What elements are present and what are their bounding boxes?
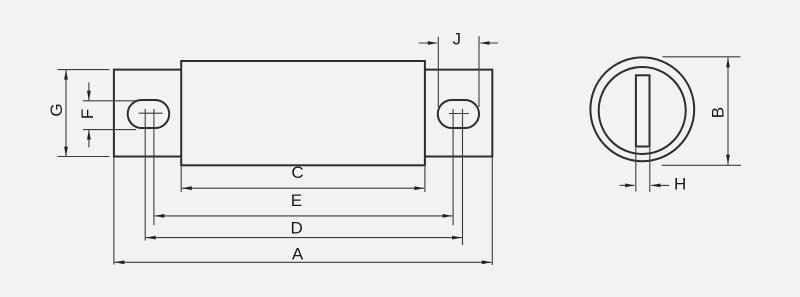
svg-text:J: J bbox=[453, 30, 462, 49]
extension lines A (tab edges extended) bbox=[114, 158, 492, 266]
svg-text:G: G bbox=[47, 103, 66, 116]
dimension line H bbox=[620, 184, 670, 188]
svg-text:D: D bbox=[291, 218, 303, 237]
dimension line B bbox=[726, 58, 730, 165]
dimension line G bbox=[64, 70, 68, 157]
svg-text:C: C bbox=[291, 163, 303, 182]
end view inner circle bbox=[599, 67, 686, 154]
left hole crosshair bbox=[139, 112, 163, 114]
svg-text:F: F bbox=[78, 109, 97, 119]
svg-text:A: A bbox=[292, 245, 304, 264]
extension lines D (outer hole-centre lines) bbox=[145, 109, 462, 245]
svg-text:B: B bbox=[709, 107, 728, 118]
dimension line C bbox=[182, 186, 424, 190]
dimension line E bbox=[155, 214, 453, 218]
right mounting tab bbox=[425, 70, 492, 157]
end view outer circle bbox=[590, 57, 694, 161]
extension lines H (slot sides extended) bbox=[636, 148, 650, 192]
extension lines F bbox=[83, 101, 136, 130]
extension lines E (inner hole-centre lines) bbox=[154, 109, 453, 225]
extension lines B bbox=[662, 57, 741, 166]
right slotted hole bbox=[438, 100, 479, 128]
svg-text:E: E bbox=[291, 191, 302, 210]
dimension line A bbox=[115, 260, 492, 264]
fuse body outline bbox=[181, 61, 425, 165]
extension lines G bbox=[58, 70, 110, 157]
left mounting tab bbox=[114, 70, 181, 157]
extension lines C (body edges extended) bbox=[181, 167, 425, 193]
dimension line J bbox=[419, 41, 498, 45]
end view slot bbox=[636, 75, 650, 146]
extension lines J bbox=[438, 36, 479, 107]
dimension line F bbox=[87, 82, 91, 147]
svg-text:H: H bbox=[674, 175, 686, 194]
left slotted hole bbox=[128, 100, 170, 128]
dimension line D bbox=[146, 236, 462, 240]
right hole crosshair bbox=[449, 113, 469, 115]
